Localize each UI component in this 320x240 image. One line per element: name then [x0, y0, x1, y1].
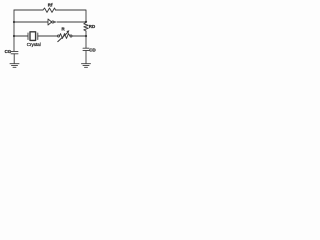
resistor Rf	[43, 8, 56, 12]
node terminal circle left	[58, 35, 60, 37]
arrowhead output	[54, 21, 56, 23]
wire R to node B	[72, 35, 86, 37]
op-amp U1 inverter	[48, 19, 52, 25]
svg-text:CD: CD	[89, 47, 95, 52]
wire top-left corner to Rf	[14, 9, 43, 11]
resistor R variable	[60, 34, 70, 39]
wire CD to ground	[85, 51, 87, 64]
svg-text:CG: CG	[5, 49, 12, 54]
crystal X1	[27, 33, 29, 40]
svg-text:RD: RD	[89, 24, 95, 29]
junction node output	[85, 21, 87, 23]
ground right	[82, 63, 91, 65]
capacitor CG	[11, 50, 18, 52]
junction node input	[13, 21, 15, 23]
ground left	[10, 63, 19, 65]
wire Rf to right rail corner	[56, 10, 87, 22]
junction node B	[85, 35, 87, 37]
wire RD to node B	[85, 32, 87, 37]
svg-text:Crystal: Crystal	[27, 42, 41, 47]
resistor RD	[84, 22, 88, 32]
wire crystal branch	[14, 35, 28, 37]
svg-text:Rf: Rf	[48, 3, 53, 8]
wire crystal to R	[38, 35, 58, 37]
capacitor CD	[83, 47, 89, 49]
node terminal circle right	[70, 35, 72, 37]
wire inverter output	[57, 21, 86, 23]
background	[0, 0, 110, 79]
wire CG to ground	[13, 54, 15, 64]
left rail wire	[13, 10, 15, 51]
wire inverter input	[14, 21, 48, 23]
wire node B down to CD	[85, 36, 87, 48]
junction node crystal-left	[13, 35, 15, 37]
